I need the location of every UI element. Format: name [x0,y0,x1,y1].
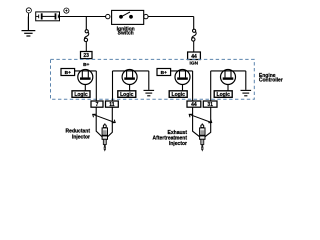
wire junction down to pin 23 [85,17,87,30]
squiggle connector (left) [84,30,89,52]
svg-text:B+: B+ [65,70,71,76]
ground (driver 1b) [144,90,155,95]
engine controller dashed box [51,59,255,99]
svg-text:23: 23 [83,53,89,59]
svg-text:Controller: Controller [259,77,283,83]
B+ supply box (driver 2) [157,69,171,77]
svg-text:Logic: Logic [172,92,186,98]
pin box 7 [91,101,103,108]
wire battery to ignition switch [60,16,106,18]
ignition switch label [117,26,135,36]
squiggle connector (right) [192,29,197,52]
ground (driver 2b) [241,90,252,95]
wire driver1 output to pin 7 [95,71,97,101]
pin box 44 (top) [188,52,201,60]
svg-text:Logic: Logic [120,92,134,98]
driver transistor U1b [113,70,149,91]
svg-text:B+: B+ [83,62,89,68]
exhaust aftertreatment injector label [153,130,188,147]
wire driver1b to pin 11 [112,71,114,101]
pin box 23 [81,52,93,60]
battery BT1 [36,12,60,21]
solenoid arrow (reductant injector) [93,114,116,123]
wire driver2b to pin 31 [210,71,212,101]
battery negative terminal circle [26,8,31,17]
logic box (driver 1b) [118,91,136,98]
svg-text:IGN: IGN [190,61,199,67]
driver transistor U1a [75,70,97,91]
exhaust aftertreatment injector [200,123,205,151]
svg-text:Logic: Logic [74,92,88,98]
wires pin7/pin11 to reductant injector [96,107,112,136]
driver transistor U2b [211,70,246,91]
logic box (driver 2b) [214,91,232,98]
svg-text:Injector: Injector [169,141,187,147]
battery positive terminal circle [64,8,69,13]
ignition switch S1 [106,10,148,24]
engine controller label [259,73,283,83]
svg-text:B+: B+ [161,70,167,76]
solenoid arrow (exhaust injector) [189,114,212,123]
driver transistor U2a [171,70,193,91]
wire driver2a output to pin 44 [192,71,194,101]
ground (battery negative) [22,17,36,37]
reductant injector label [66,129,91,141]
logic box (driver 2a) [169,91,187,98]
logic box (driver 1) [72,91,90,98]
pin box 11 [106,101,119,108]
svg-text:Switch: Switch [118,31,134,37]
B+ supply box (driver 1) [61,69,75,77]
pin box 44 (bottom) [187,101,201,108]
wire driver1b to ground [148,71,150,90]
svg-text:Logic: Logic [217,92,231,98]
svg-text:Injector: Injector [72,134,90,140]
pin box 31 [203,101,217,108]
wire driver2b to ground [245,71,247,90]
svg-text:44: 44 [191,102,197,108]
wire ignition switch to pin 44 [148,17,194,30]
reductant injector [102,123,107,151]
wires pin44/pin31 to exhaust injector [193,107,211,136]
